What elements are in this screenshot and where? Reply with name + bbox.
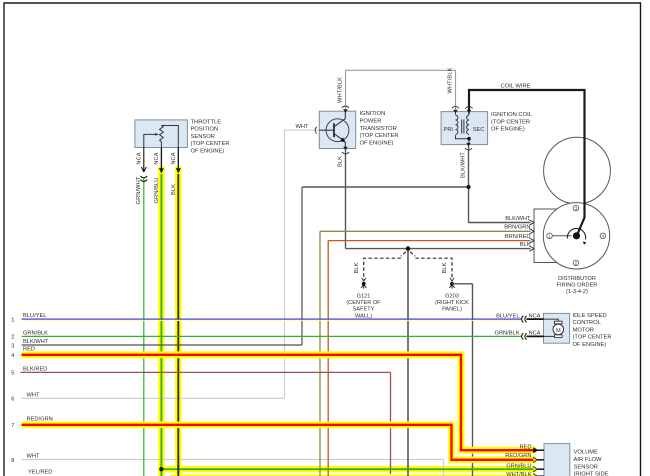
- svg-text:RED/GRN: RED/GRN: [27, 416, 53, 422]
- svg-text:WHT: WHT: [27, 453, 40, 459]
- svg-text:7: 7: [11, 423, 14, 429]
- svg-text:BRN/RED: BRN/RED: [505, 234, 531, 240]
- svg-text:NCA: NCA: [529, 313, 541, 319]
- svg-text:OF ENGINE): OF ENGINE): [191, 149, 225, 155]
- svg-text:(RIGHT SIDE: (RIGHT SIDE: [574, 472, 609, 476]
- svg-text:GRN/BLK: GRN/BLK: [23, 330, 48, 336]
- svg-text:GRN/BLK: GRN/BLK: [495, 331, 520, 337]
- svg-text:PRI: PRI: [444, 127, 454, 133]
- svg-text:YEL/RED: YEL/RED: [28, 469, 52, 475]
- svg-text:(TOP CENTER: (TOP CENTER: [573, 335, 612, 341]
- svg-text:BRN/GRN: BRN/GRN: [504, 225, 530, 231]
- svg-text:1: 1: [11, 317, 14, 323]
- svg-text:SAFETY: SAFETY: [353, 307, 375, 313]
- svg-text:(TOP CENTER: (TOP CENTER: [360, 133, 399, 139]
- svg-text:PANEL): PANEL): [442, 307, 462, 313]
- svg-text:OF ENGINE): OF ENGINE): [360, 140, 394, 146]
- svg-text:NCA: NCA: [171, 152, 177, 164]
- svg-text:FIRING ORDER: FIRING ORDER: [557, 283, 598, 289]
- svg-text:G203: G203: [445, 293, 459, 299]
- svg-text:RED: RED: [519, 445, 531, 451]
- svg-text:BLK/WHT: BLK/WHT: [23, 339, 49, 345]
- svg-text:THROTTLE: THROTTLE: [191, 119, 222, 125]
- svg-text:BLK: BLK: [354, 262, 360, 273]
- svg-text:BLK: BLK: [171, 184, 177, 195]
- svg-text:WHT/BLK: WHT/BLK: [506, 472, 531, 476]
- svg-text:SEC: SEC: [473, 127, 485, 133]
- svg-text:IGNITION COIL: IGNITION COIL: [491, 112, 533, 118]
- svg-text:GRN/BLU: GRN/BLU: [154, 178, 160, 204]
- svg-text:VOLUME: VOLUME: [574, 450, 599, 456]
- svg-text:(CENTER OF: (CENTER OF: [346, 300, 381, 306]
- svg-text:G121: G121: [357, 293, 371, 299]
- svg-text:WHT: WHT: [296, 124, 309, 130]
- svg-text:WALL): WALL): [355, 313, 372, 319]
- svg-text:(TOP CENTER: (TOP CENTER: [191, 141, 230, 147]
- svg-text:POSITION: POSITION: [191, 127, 219, 133]
- svg-text:BLK: BLK: [442, 262, 448, 273]
- svg-text:BLU/YEL: BLU/YEL: [23, 313, 46, 319]
- svg-text:5: 5: [11, 371, 14, 377]
- svg-text:IGNITION: IGNITION: [360, 111, 386, 117]
- svg-text:3: 3: [11, 343, 14, 349]
- svg-text:BLK/WHT: BLK/WHT: [505, 216, 531, 222]
- svg-text:BLK/WHT: BLK/WHT: [460, 152, 466, 178]
- svg-text:(RIGHT KICK: (RIGHT KICK: [435, 300, 469, 306]
- svg-text:2: 2: [11, 335, 14, 341]
- svg-text:TRANSISTOR: TRANSISTOR: [360, 126, 397, 132]
- svg-text:CONTROL: CONTROL: [573, 320, 602, 326]
- svg-text:MOTOR: MOTOR: [573, 327, 594, 333]
- svg-text:BLK/RED: BLK/RED: [23, 366, 47, 372]
- svg-text:NCA: NCA: [529, 331, 541, 337]
- svg-text:RED: RED: [23, 346, 35, 352]
- svg-text:4: 4: [11, 353, 14, 359]
- svg-text:SENSOR: SENSOR: [574, 464, 598, 470]
- svg-text:BLK: BLK: [338, 156, 344, 167]
- svg-text:IDLE SPEED: IDLE SPEED: [573, 313, 607, 319]
- svg-text:M: M: [556, 328, 561, 334]
- svg-text:8: 8: [11, 458, 14, 464]
- svg-text:WHT/BLK: WHT/BLK: [447, 67, 453, 93]
- svg-text:WHT/BLK: WHT/BLK: [337, 77, 343, 103]
- svg-text:(1-3-4-2): (1-3-4-2): [566, 289, 588, 295]
- svg-text:NCA: NCA: [154, 152, 160, 164]
- svg-text:BLU/YEL: BLU/YEL: [496, 313, 519, 319]
- svg-text:BLK: BLK: [520, 242, 531, 248]
- svg-text:(TOP CENTER: (TOP CENTER: [491, 119, 530, 125]
- svg-text:6: 6: [11, 397, 14, 403]
- svg-text:POWER: POWER: [360, 119, 382, 125]
- svg-text:WHT: WHT: [27, 392, 40, 398]
- svg-text:OF ENGINE): OF ENGINE): [491, 127, 525, 133]
- svg-text:OF ENGINE): OF ENGINE): [573, 342, 607, 348]
- svg-text:AIR FLOW: AIR FLOW: [574, 457, 603, 463]
- svg-text:SENSOR: SENSOR: [191, 134, 215, 140]
- svg-text:DISTRIBUTOR: DISTRIBUTOR: [558, 276, 596, 282]
- svg-text:RED/GRN: RED/GRN: [505, 453, 531, 459]
- svg-text:COIL WIRE: COIL WIRE: [500, 83, 530, 89]
- svg-text:GRN/BLU: GRN/BLU: [506, 463, 531, 469]
- svg-text:NCA: NCA: [136, 152, 142, 164]
- svg-text:GRN/WHT: GRN/WHT: [136, 176, 142, 204]
